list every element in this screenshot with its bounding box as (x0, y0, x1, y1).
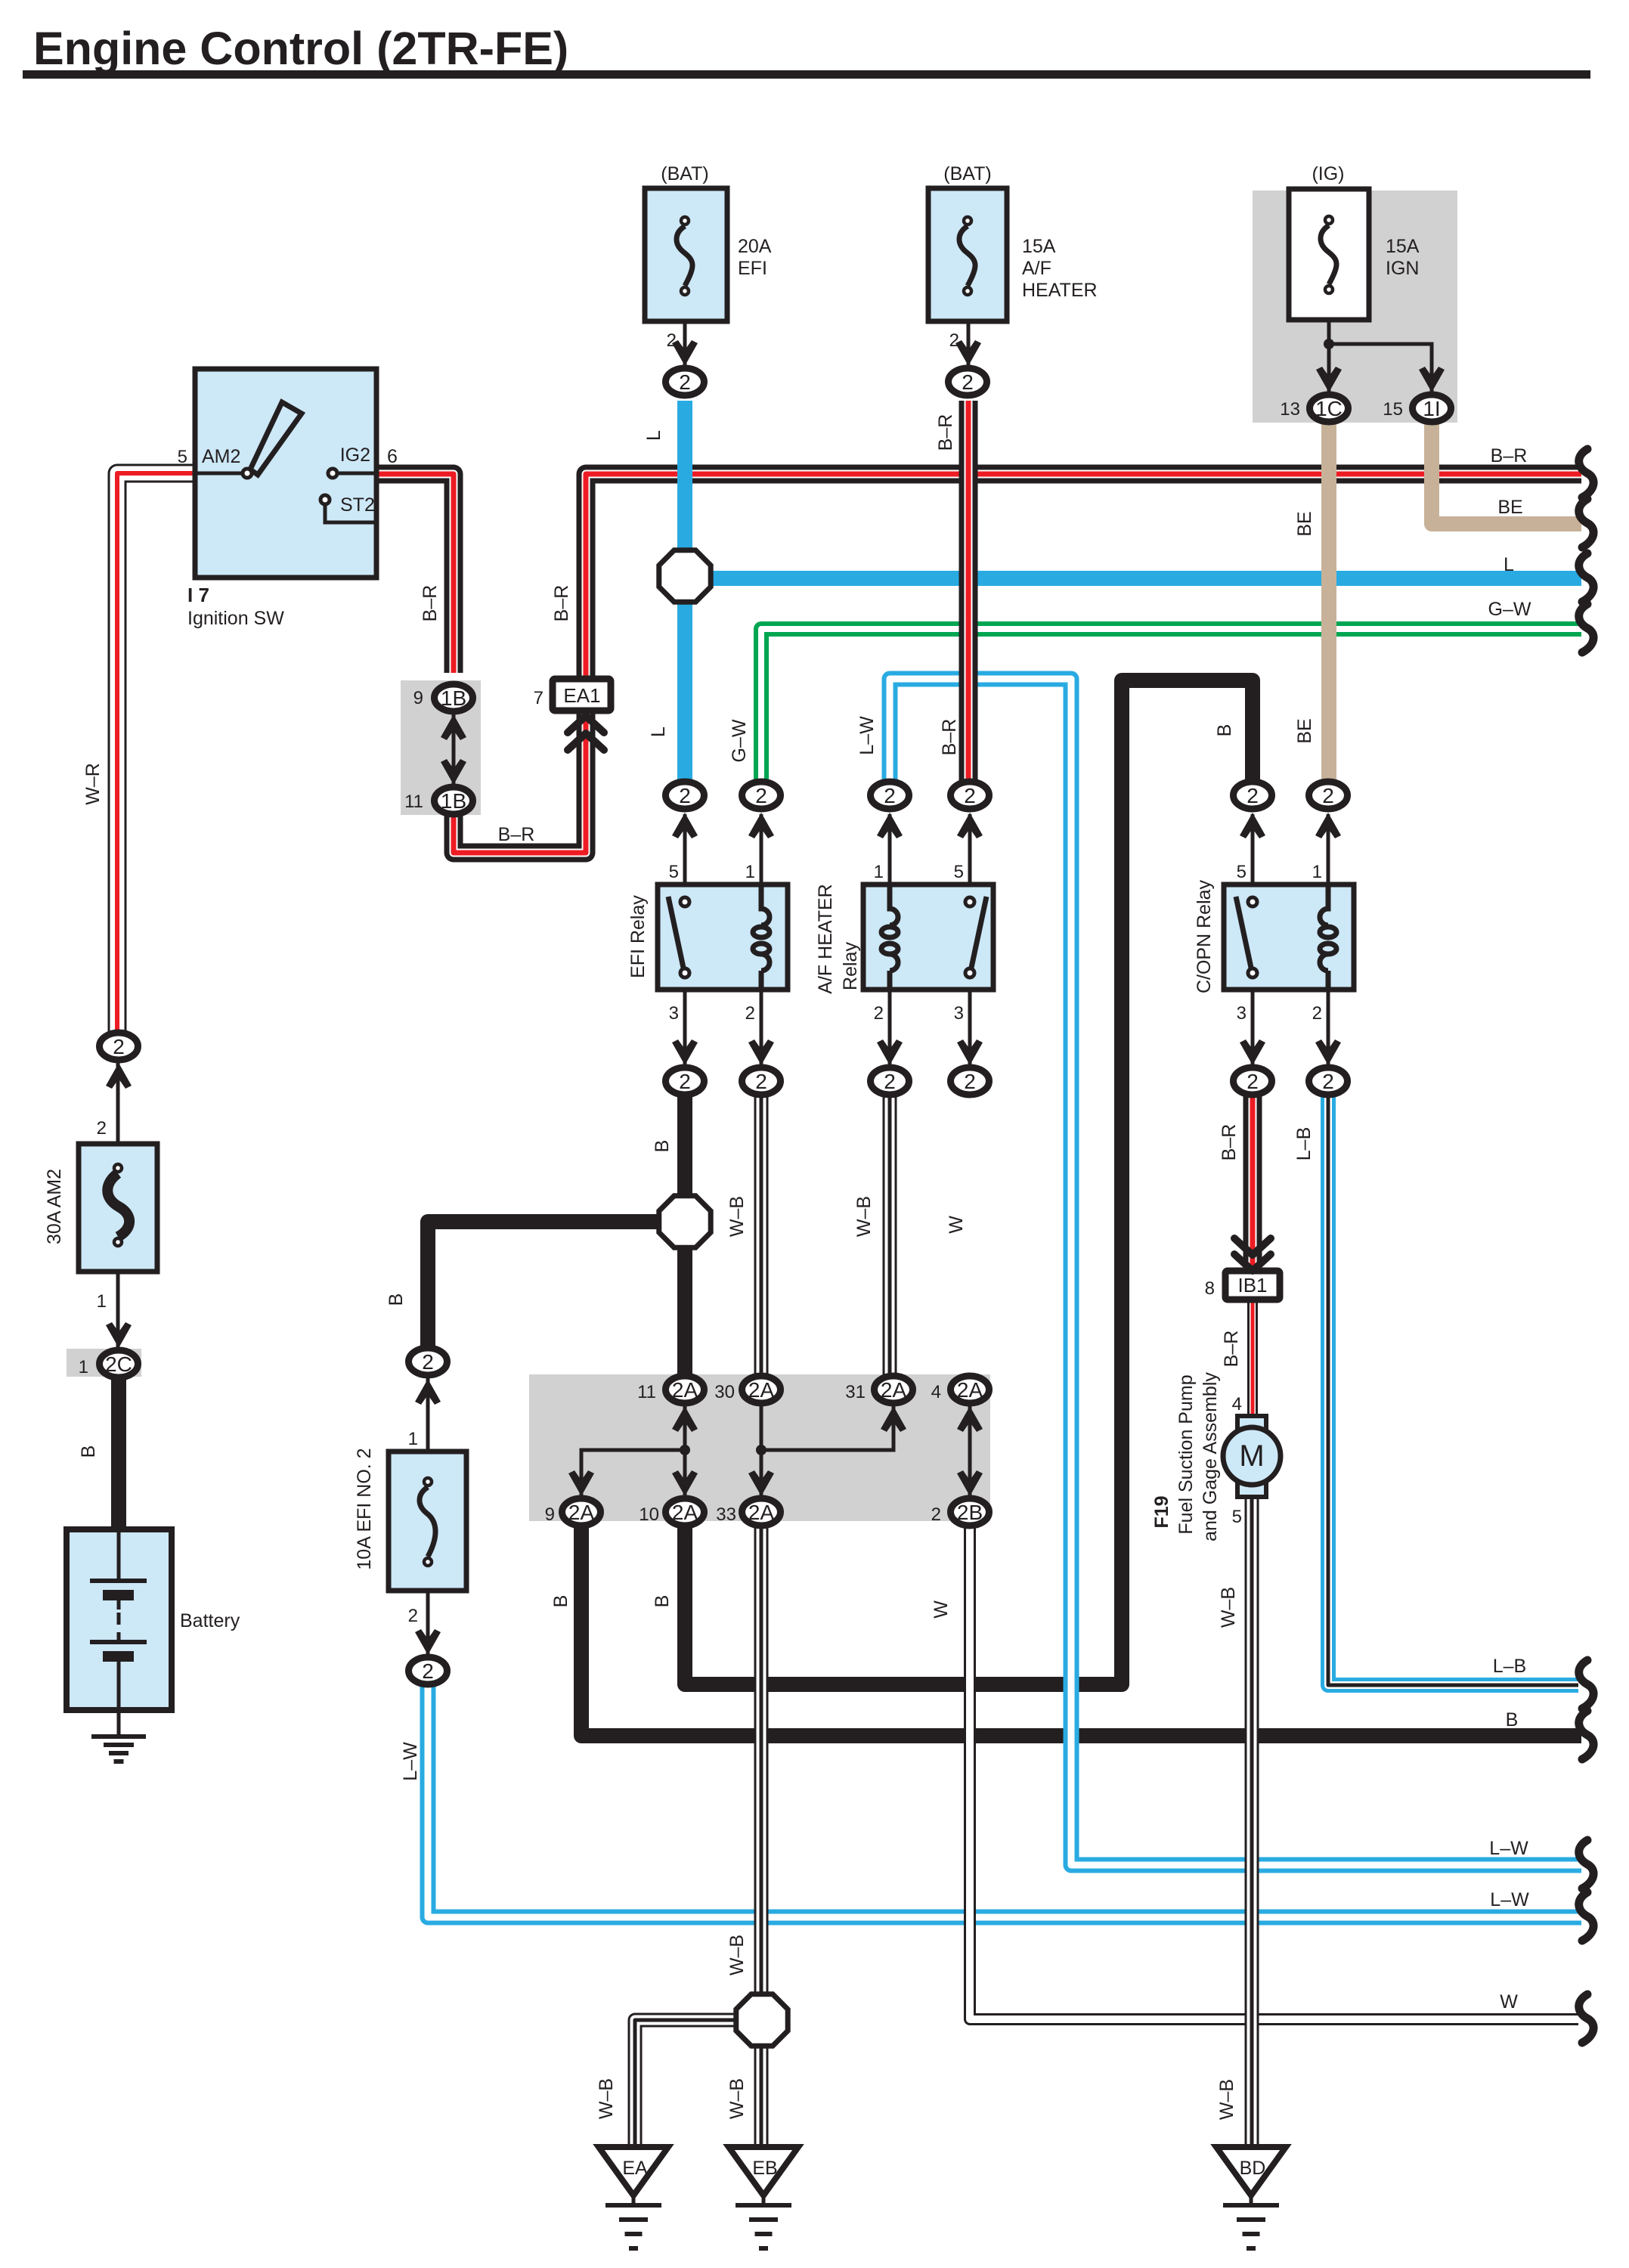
battery box (67, 1529, 172, 1710)
wire link C/OPN relay pin 2 (1327, 990, 1330, 1066)
arrow into connector 1I (1419, 367, 1445, 392)
page break squiggle for G-W wire (1579, 604, 1593, 652)
svg-text:EA: EA (622, 2158, 648, 2179)
arrow into connector 33 2A (748, 1470, 774, 1496)
arrow into connector above A/F relay pin 5 (957, 813, 983, 838)
svg-text:2A: 2A (672, 1378, 698, 1402)
arrow into connector below C/OPN relay pin 2 (1315, 1039, 1341, 1065)
wire link connector to fuse EFI NO.2 top (426, 1377, 430, 1452)
connector 2 at EFI relay pin 5 (666, 782, 705, 809)
svg-text:1: 1 (745, 862, 755, 882)
wire link C/OPN relay pin 1 (1327, 814, 1330, 885)
connector 11 2A (666, 1376, 705, 1403)
svg-text:2: 2 (884, 784, 896, 807)
fuse 10A EFI NO.2 (389, 1452, 466, 1591)
svg-text:G–W: G–W (1488, 599, 1531, 620)
page break squiggle for L-B wire (1579, 1660, 1593, 1709)
svg-text:HEATER: HEATER (1022, 280, 1098, 301)
arrow into connector above A/F relay pin 1 (877, 813, 903, 838)
ground BD (1216, 2147, 1286, 2195)
svg-text:2: 2 (755, 1070, 767, 1093)
connector 2 below fuse EFI (666, 368, 705, 395)
wire L horizontal to right edge (685, 571, 1581, 586)
svg-text:2C: 2C (105, 1352, 132, 1376)
svg-text:2: 2 (422, 1350, 434, 1374)
fuse 15A IGN (1289, 189, 1369, 320)
arrow into connector below EFI relay pin 2 (748, 1039, 774, 1065)
wire link EFI relay pin 3 (683, 990, 687, 1066)
svg-text:2: 2 (408, 1606, 418, 1626)
connector IB1 box (1225, 1271, 1280, 1300)
svg-text:Ignition SW: Ignition SW (187, 608, 284, 629)
ignition switch AM2 terminal (195, 469, 252, 478)
svg-text:2: 2 (667, 330, 677, 351)
svg-text:G–W: G–W (729, 719, 750, 762)
svg-text:W–B: W–B (726, 2078, 748, 2119)
svg-text:Fuel Suction Pump: Fuel Suction Pump (1175, 1374, 1197, 1534)
arrow into connector above EFI relay pin 5 (672, 813, 698, 838)
svg-text:2: 2 (931, 1504, 941, 1525)
svg-text:L–W: L–W (1490, 1889, 1529, 1910)
svg-text:A/F HEATER: A/F HEATER (815, 884, 836, 993)
ignition switch IG2 terminal (328, 469, 376, 478)
svg-text:B–R: B–R (1491, 445, 1528, 466)
svg-text:BE: BE (1294, 511, 1315, 536)
wire L from fuse EFI down through junction (677, 401, 692, 782)
wire link connector to fuse AM2 (116, 1061, 120, 1144)
svg-text:7: 7 (534, 688, 544, 708)
svg-text:L–B: L–B (1493, 1656, 1526, 1677)
svg-text:ST2: ST2 (340, 494, 375, 516)
svg-text:4: 4 (1232, 1394, 1242, 1414)
gray background of 2A/2B junction connector strip (529, 1374, 990, 1521)
relay A/F HEATER switch contact (965, 897, 986, 978)
wire link A/F HEATER relay pin 3 (968, 990, 972, 1066)
svg-text:1: 1 (874, 862, 884, 882)
wire link 11 2A to junction and branches (581, 1405, 685, 1498)
svg-text:IGN: IGN (1386, 258, 1419, 279)
svg-text:1: 1 (79, 1357, 88, 1377)
connector 2 below fuse EFI NO.2 (409, 1657, 448, 1684)
svg-text:2: 2 (679, 784, 691, 807)
wire L-B from C/OPN relay pin 2 to right edge (1328, 1094, 1578, 1685)
double chevron into EA1 (568, 716, 604, 750)
svg-text:4: 4 (931, 1382, 941, 1402)
connector 2 below fuse A/F HEATER (949, 368, 987, 395)
gray background of 2C connector (67, 1349, 141, 1377)
connector 31 2A (875, 1376, 913, 1403)
junction octagon C (736, 1994, 788, 2046)
arrow into connector below A/F relay pin 2 (877, 1039, 903, 1065)
wire link 30 2A to junction and branches (761, 1405, 893, 1498)
connector 2 above fuse EFI NO.2 (409, 1348, 448, 1375)
svg-text:B–R: B–R (420, 585, 441, 622)
arrow into connector below fuse A/F HEATER (955, 340, 981, 366)
wire link A/F HEATER relay pin 5 (968, 814, 972, 885)
title underline (23, 70, 1590, 79)
svg-text:B: B (1506, 1709, 1519, 1730)
wire G-W from EFI relay pin 1 to right edge (761, 629, 1581, 782)
connector 9 2A (562, 1498, 601, 1526)
svg-text:11: 11 (404, 792, 423, 812)
wire L-W from fuse EFI NO.2 to right edge (428, 1684, 1581, 1917)
page break squiggle for L-W lower wire (1579, 1892, 1593, 1941)
relay C/OPN Relay box (1224, 885, 1354, 990)
arrow into connector 10 2A (672, 1470, 698, 1496)
svg-text:11: 11 (637, 1382, 656, 1402)
svg-text:IB1: IB1 (1237, 1274, 1267, 1297)
svg-text:B–R: B–R (939, 719, 960, 756)
connector 33 2A (742, 1498, 781, 1526)
svg-text:10A EFI NO. 2: 10A EFI NO. 2 (354, 1448, 375, 1569)
relay EFI switch contact (668, 897, 689, 978)
fuel pump motor M (1223, 1416, 1281, 1497)
svg-text:B: B (550, 1595, 571, 1608)
svg-text:2A: 2A (748, 1501, 775, 1524)
connector 2 below EFI relay pin 3 (666, 1067, 705, 1095)
svg-text:AM2: AM2 (202, 446, 240, 467)
arrow into connector 4 2A (957, 1406, 983, 1432)
wire B from junction octagon to fuse EFI NO.2 (428, 1222, 685, 1348)
svg-text:Battery: Battery (180, 1610, 240, 1631)
connector 10 2A (666, 1498, 705, 1526)
svg-text:C/OPN Relay: C/OPN Relay (1194, 879, 1215, 993)
svg-text:2: 2 (1322, 1070, 1334, 1093)
gray background of 1B junction connectors (401, 680, 481, 815)
connector 2 below EFI relay pin 2 (742, 1067, 781, 1095)
wire link EFI relay pin 5 (683, 814, 687, 885)
svg-text:15A: 15A (1022, 236, 1056, 257)
connector 2 on W-R wire (100, 1033, 138, 1060)
svg-text:6: 6 (387, 446, 398, 467)
svg-text:2: 2 (97, 1118, 107, 1139)
svg-text:2A: 2A (672, 1501, 698, 1524)
arrow into connector below A/F relay pin 3 (957, 1039, 983, 1065)
arrow into connector below EFI relay pin 3 (672, 1039, 698, 1065)
arrow into connector above EFI relay pin 1 (748, 813, 774, 838)
connector 2 below A/F relay pin 3 (951, 1067, 989, 1095)
svg-text:B–R: B–R (935, 414, 956, 451)
arrow into connector above fuse EFI NO.2 (415, 1379, 441, 1405)
junction octagon A (659, 550, 711, 602)
ignition switch lever (250, 402, 302, 475)
svg-text:B–R: B–R (498, 824, 535, 845)
svg-text:L: L (643, 430, 664, 441)
svg-text:1I: 1I (1423, 397, 1440, 420)
svg-text:W–B: W–B (596, 2078, 617, 2119)
svg-text:3: 3 (1237, 1003, 1247, 1024)
svg-text:2: 2 (745, 1003, 755, 1024)
svg-text:2: 2 (874, 1003, 884, 1024)
connector 2 at C/OPN relay pin 1 (1309, 782, 1348, 809)
svg-text:BE: BE (1497, 497, 1522, 518)
wire B from EFI relay pin 3 down to 2A strip (677, 1094, 692, 1377)
wire B-R from connector 1B via EA1 to right edge (454, 474, 1581, 853)
svg-text:2: 2 (1312, 1003, 1322, 1024)
ignition switch I7 box (195, 369, 376, 578)
svg-text:2: 2 (884, 1070, 896, 1093)
wire L-W from A/F HEATER relay pin 1 to right edge (890, 679, 1581, 1865)
page break squiggle for B-R wire (1579, 449, 1593, 497)
svg-text:B: B (652, 1595, 673, 1608)
connector 2 at EFI relay pin 1 (742, 782, 781, 809)
page break squiggle for BE wire (1579, 499, 1593, 547)
wire link fuse A/F HEATER to connector (967, 296, 971, 367)
svg-text:L: L (1504, 554, 1514, 575)
wire BE from connector 1I to right edge (1432, 422, 1581, 524)
svg-text:2B: 2B (957, 1501, 983, 1524)
svg-text:1: 1 (1312, 862, 1322, 882)
ignition switch ST2 terminal (321, 495, 376, 522)
svg-text:31: 31 (845, 1382, 866, 1402)
wire link EFI relay pin 2 (760, 990, 763, 1066)
wire link C/OPN relay pin 5 (1251, 814, 1255, 885)
svg-text:W–B: W–B (853, 1196, 875, 1237)
gray background of IG fuse block (1253, 191, 1457, 423)
svg-text:B: B (652, 1140, 673, 1153)
svg-text:L–W: L–W (1489, 1838, 1528, 1859)
svg-text:13: 13 (1280, 399, 1300, 420)
svg-text:W–R: W–R (82, 763, 104, 805)
connector 2 at A/F relay pin 5 (951, 782, 989, 809)
wire link fuse IGN to connectors 1C and 1I (1329, 295, 1432, 395)
svg-text:3: 3 (669, 1003, 679, 1024)
svg-text:Relay: Relay (840, 942, 861, 990)
connector 2 below C/OPN relay pin 3 (1234, 1067, 1272, 1095)
svg-text:L: L (648, 727, 669, 737)
relay A/F HEATER Relay box (863, 885, 993, 990)
svg-text:2: 2 (964, 1070, 976, 1093)
page break squiggle for W wire (1579, 1994, 1593, 2043)
wire link EFI relay pin 1 (760, 814, 763, 885)
wire B-R from C/OPN relay pin 3 to connector IB1 (1243, 1094, 1262, 1271)
wire B from connector 10 2A to C/OPN relay pin 5 (685, 680, 1253, 1684)
battery cell symbols (90, 1529, 147, 1709)
svg-text:5: 5 (1237, 862, 1247, 882)
arrow into connector 11 2A (672, 1406, 698, 1432)
wire link battery to ground (117, 1709, 121, 1736)
svg-text:B–R: B–R (1219, 1124, 1240, 1161)
svg-text:B–R: B–R (551, 585, 572, 622)
svg-text:5: 5 (1232, 1507, 1242, 1527)
svg-text:IG2: IG2 (340, 445, 370, 466)
connector 11 1B (435, 787, 473, 814)
connector 2 below A/F relay pin 2 (871, 1067, 909, 1095)
svg-text:5: 5 (669, 862, 679, 882)
wire B from connector 9 2A to right edge (581, 1525, 1581, 1736)
svg-text:W: W (931, 1600, 952, 1619)
wire W-B from A/F HEATER relay pin 2 to connector 31 2A (883, 1094, 897, 1377)
svg-text:I 7: I 7 (187, 584, 209, 606)
relay EFI Relay box (658, 885, 788, 990)
svg-text:2: 2 (755, 784, 767, 807)
svg-text:33: 33 (716, 1504, 736, 1525)
ground EA (599, 2147, 668, 2195)
arrow into connector W-R (106, 1063, 132, 1089)
svg-text:(IG): (IG) (1312, 163, 1344, 184)
svg-text:5: 5 (954, 862, 964, 882)
svg-text:2A: 2A (881, 1378, 907, 1402)
connector 2 2B (951, 1498, 989, 1526)
wire link fuse AM2 to connector 2C (116, 1272, 120, 1352)
junction dot below 11 2A (680, 1445, 690, 1455)
arrow into connector 9 1B (441, 714, 466, 740)
svg-text:B–R: B–R (1221, 1331, 1242, 1368)
wire B-R from ignition SW IG2 to connector 1B (376, 474, 454, 673)
svg-text:W–B: W–B (726, 1935, 748, 1975)
wire B-R from fuse A/F HEATER down to relay pin 5 (959, 401, 978, 782)
connector 1C (1310, 395, 1349, 422)
arrow into connector 9 2A (568, 1470, 594, 1496)
svg-text:2A: 2A (568, 1501, 595, 1524)
svg-text:30: 30 (714, 1382, 735, 1402)
svg-text:15A: 15A (1386, 236, 1420, 257)
svg-text:B: B (386, 1294, 407, 1306)
svg-text:2: 2 (1247, 1070, 1259, 1093)
arrow into connector below C/OPN relay pin 3 (1240, 1039, 1265, 1065)
svg-text:W–B: W–B (1216, 2079, 1237, 2120)
connector 2C (100, 1350, 138, 1377)
fuse 30A AM2 (79, 1144, 157, 1272)
wire link fuse EFI NO.2 bottom to connector (426, 1591, 430, 1656)
svg-text:L–B: L–B (1293, 1127, 1315, 1160)
arrow into connector above C/OPN relay pin 1 (1315, 813, 1341, 838)
wire link A/F HEATER relay pin 1 (888, 814, 892, 885)
connector 2 below C/OPN relay pin 2 (1309, 1067, 1348, 1095)
svg-text:2: 2 (1247, 784, 1259, 807)
connector 1I (1413, 395, 1451, 422)
wire W-B from EFI relay pin 2 to connector 30 2A (754, 1094, 769, 1377)
wire link C/OPN relay pin 3 (1251, 990, 1255, 1066)
wire link 4 2A to 2 2B (968, 1405, 972, 1498)
wire B from connector 2C to battery (111, 1377, 126, 1529)
svg-text:5: 5 (178, 447, 187, 467)
svg-text:1B: 1B (441, 789, 466, 813)
svg-text:A/F: A/F (1022, 258, 1051, 279)
arrow into connector 2 2B (957, 1470, 983, 1496)
connector 9 1B (435, 684, 473, 711)
svg-text:10: 10 (639, 1504, 659, 1525)
arrow into connector 1C (1316, 367, 1342, 392)
svg-text:2: 2 (1322, 784, 1334, 807)
svg-text:(BAT): (BAT) (943, 163, 991, 184)
svg-text:1C: 1C (1315, 397, 1343, 420)
wire W-B from fuel pump pin 5 to ground BD (1245, 1495, 1259, 2147)
svg-text:EB: EB (752, 2158, 777, 2179)
svg-text:(BAT): (BAT) (661, 163, 708, 184)
arrow into connector 11 1B (441, 759, 466, 785)
svg-text:9: 9 (545, 1504, 555, 1525)
relay EFI coil (753, 885, 770, 990)
svg-text:8: 8 (1205, 1278, 1215, 1299)
page break squiggle for L-W upper wire (1579, 1840, 1593, 1888)
wire link between 1B connectors (452, 713, 456, 786)
connector EA1 box (553, 679, 611, 711)
svg-text:BD: BD (1240, 2158, 1266, 2179)
svg-text:W: W (1500, 1991, 1518, 2012)
svg-text:2: 2 (962, 370, 974, 394)
fuse 20A EFI (645, 188, 727, 321)
wire BE from connector 1C down to C/OPN relay pin 1 (1321, 420, 1336, 782)
arrow into connector 31 2A (881, 1406, 906, 1432)
svg-text:20A: 20A (738, 236, 772, 257)
fuse 15A A/F HEATER (928, 188, 1007, 321)
svg-text:EFI Relay: EFI Relay (627, 895, 649, 978)
svg-text:1B: 1B (441, 686, 466, 710)
svg-text:B: B (1214, 724, 1235, 737)
wire link fuse EFI to connector (683, 296, 687, 367)
svg-text:F19: F19 (1151, 1495, 1172, 1528)
junction octagon B (659, 1196, 711, 1247)
double chevron into IB1 (1234, 1238, 1271, 1271)
svg-text:B: B (78, 1445, 99, 1458)
svg-text:3: 3 (954, 1003, 964, 1024)
relay A/F HEATER coil (881, 885, 898, 990)
svg-text:EFI: EFI (738, 258, 767, 279)
arrow into connector above C/OPN relay pin 5 (1240, 813, 1265, 838)
svg-text:2: 2 (422, 1659, 434, 1683)
arrow into connector below fuse EFI (672, 340, 698, 366)
svg-text:W–B: W–B (726, 1196, 748, 1237)
junction dot below 30 2A (756, 1445, 766, 1455)
relay C/OPN switch contact (1236, 897, 1257, 978)
connector 2 at A/F relay pin 1 (871, 782, 909, 809)
svg-text:M: M (1239, 1439, 1264, 1473)
page break squiggle for L wire (1579, 553, 1593, 602)
svg-text:2A: 2A (957, 1378, 983, 1402)
page break squiggle for B wire (1579, 1711, 1593, 1759)
svg-text:2: 2 (949, 330, 959, 351)
relay C/OPN coil (1320, 885, 1336, 990)
svg-text:L–W: L–W (856, 716, 878, 755)
svg-text:2A: 2A (748, 1378, 775, 1402)
svg-text:1: 1 (97, 1291, 107, 1312)
svg-text:W–B: W–B (1218, 1587, 1239, 1628)
svg-text:2: 2 (964, 784, 976, 807)
wire B-R from connector IB1 to fuel pump pin 4 (1247, 1300, 1258, 1417)
wire W-B from connector 33 2A to ground EB (754, 1525, 769, 2147)
junction dot below fuse IGN (1324, 339, 1334, 349)
wire W from connector 2 2B to right edge (970, 1525, 1578, 2019)
battery ground symbol (91, 1734, 146, 1739)
svg-text:15: 15 (1383, 399, 1403, 420)
connector 4 2A (951, 1376, 989, 1403)
wire W-B branch from junction to ground EA (635, 2020, 762, 2147)
svg-text:2: 2 (679, 1070, 691, 1093)
svg-text:9: 9 (413, 688, 423, 708)
svg-text:EA1: EA1 (563, 684, 600, 707)
svg-text:L–W: L–W (400, 1742, 421, 1781)
wire link A/F HEATER relay pin 2 (888, 990, 892, 1066)
svg-text:BE: BE (1294, 718, 1315, 743)
svg-text:2: 2 (679, 370, 691, 394)
svg-text:and Gage Assembly: and Gage Assembly (1200, 1372, 1221, 1541)
ground EB (729, 2147, 798, 2195)
svg-text:1: 1 (408, 1429, 418, 1449)
svg-text:2: 2 (113, 1035, 125, 1058)
wire W-R from ignition SW AM2 down to connector (117, 473, 195, 1036)
svg-text:Engine Control (2TR-FE): Engine Control (2TR-FE) (33, 23, 568, 74)
connector 30 2A (742, 1376, 781, 1403)
svg-text:30A AM2: 30A AM2 (44, 1169, 65, 1244)
arrow into connector 2C (106, 1322, 132, 1348)
arrow into connector below fuse EFI NO.2 (415, 1629, 441, 1655)
svg-text:W: W (946, 1216, 967, 1234)
connector 2 at C/OPN relay pin 5 (1234, 782, 1272, 809)
